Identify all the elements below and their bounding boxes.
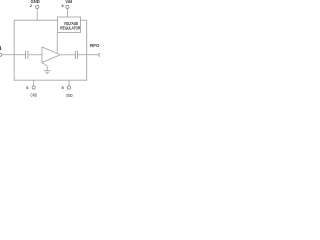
svg-text:GND: GND (66, 93, 73, 98)
svg-text:Vdd: Vdd (65, 0, 72, 4)
svg-text:REGULATOR: REGULATOR (60, 26, 81, 31)
svg-text:3: 3 (61, 3, 64, 8)
svg-text:GND: GND (31, 93, 38, 98)
svg-text:6: 6 (26, 85, 29, 90)
svg-text:RFO: RFO (90, 43, 100, 48)
svg-text:5: 5 (62, 85, 65, 90)
